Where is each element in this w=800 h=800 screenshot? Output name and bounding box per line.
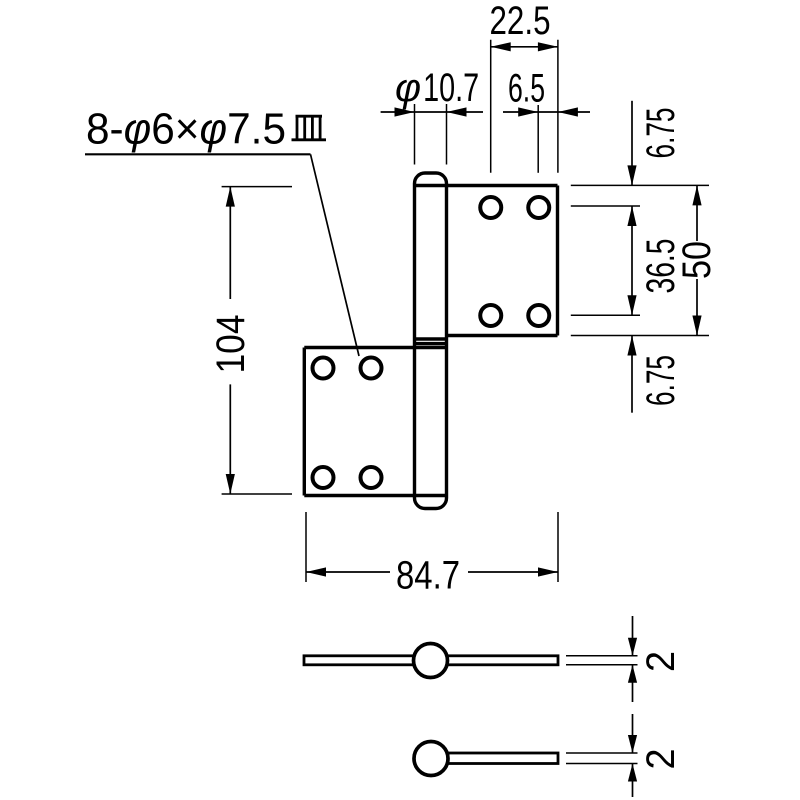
svg-text:104: 104 (209, 315, 253, 374)
dimension 36.5 text (639, 239, 683, 294)
dimension 104 line lower (226, 384, 235, 494)
dimension 6.75 bottom line (627, 336, 636, 413)
extension line plate bottom right (571, 335, 709, 337)
dimension 6.75 top text (639, 108, 683, 159)
svg-text:2: 2 (639, 749, 683, 770)
dimension phi10.7 line left tail (381, 107, 415, 116)
svg-text:6.75: 6.75 (639, 108, 683, 159)
countersunk symbol (sara) (292, 115, 327, 140)
svg-text:50: 50 (675, 241, 719, 279)
side view 2 pin circle (414, 742, 448, 776)
dimension 6.5 left tail (503, 107, 538, 116)
knuckle joint band upper (415, 337, 447, 340)
dimension 2 lower: above arrow (628, 714, 637, 753)
dimension phi10.7 line middle (415, 111, 447, 113)
extension line 84.7 right (557, 512, 559, 582)
extension line hole col right (537, 105, 539, 173)
top leaf right edge (556, 186, 559, 336)
pin top cap (415, 173, 447, 186)
extension line hole row2 (571, 314, 640, 316)
top leaf top edge (415, 184, 558, 187)
dimension 2 lower: below arrow (628, 764, 637, 798)
dimension 104 line upper (226, 187, 235, 299)
pin bottom cap (415, 496, 447, 509)
dimension 6.5 middle (538, 111, 558, 113)
screw hole 3 (480, 305, 501, 326)
pin right edge (445, 186, 448, 496)
dimension 50 line lower (692, 279, 701, 336)
side view 2 ext line top (566, 752, 638, 754)
dimension 50 text (675, 241, 719, 279)
dimension 2 upper: above arrow (628, 616, 637, 656)
side view 1 ext line top (566, 655, 638, 657)
dimension 104 text (209, 315, 253, 374)
dimension 84.7 line right (468, 567, 558, 576)
dimension 6.5 text (508, 67, 545, 111)
extension line 104 top (222, 186, 292, 188)
svg-text:8-φ6×φ7.5: 8-φ6×φ7.5 (86, 105, 286, 154)
dimension 6.5 right tail (558, 107, 590, 116)
extension line 84.7 left (305, 512, 307, 582)
screw hole 8 (361, 467, 382, 488)
dimension 22.5 text (490, 0, 551, 43)
dimension 2 upper text (639, 651, 683, 672)
dimension 6.75 bottom text (639, 355, 683, 406)
side view 2 ext line bottom (566, 763, 638, 765)
extension line hole col left (490, 40, 492, 173)
screw hole 2 (528, 197, 549, 218)
extension line pin left (414, 104, 416, 165)
screw hole 7 (313, 467, 334, 488)
screw hole 4 (528, 305, 549, 326)
dimension phi10.7 text (395, 66, 479, 110)
extension line pin right (446, 104, 448, 165)
side view 1 leaf bar (304, 656, 558, 665)
dimension 36.5 line (627, 206, 636, 315)
svg-text:6.5: 6.5 (508, 67, 545, 111)
pin left edge (413, 186, 416, 496)
screw hole 1 (480, 197, 501, 218)
dimension 6.75 top line (627, 101, 636, 186)
extension line plate right top (557, 40, 559, 173)
dimension 2 upper: below arrow (628, 665, 637, 702)
lower leaf top edge (304, 346, 446, 349)
label 8-phi6xphi7.5 countersunk (86, 105, 286, 154)
screw hole 5 (313, 358, 334, 379)
leader line to hole (311, 154, 360, 356)
top leaf bottom edge (447, 334, 558, 337)
knuckle joint band lower (415, 342, 447, 345)
label underline (85, 153, 311, 155)
dimension 50 line upper (692, 185, 701, 241)
dimension phi10.7 line right tail (447, 107, 484, 116)
side view 1 ext line bottom (566, 664, 638, 666)
extension line 104 bottom (222, 493, 292, 495)
lower leaf bottom edge (304, 494, 446, 497)
side view 2 leaf bar (448, 753, 558, 764)
svg-text:2: 2 (639, 651, 683, 672)
extension line plate top right (571, 184, 709, 186)
dimension 2 lower text (639, 749, 683, 770)
dimension 84.7 line left (306, 567, 390, 576)
svg-text:6.75: 6.75 (639, 355, 683, 406)
svg-text:22.5: 22.5 (490, 0, 551, 43)
svg-text:84.7: 84.7 (396, 554, 460, 598)
screw hole 6 (361, 358, 382, 379)
lower leaf left edge (303, 348, 306, 496)
dimension 84.7 text (396, 554, 460, 598)
svg-text:φ10.7: φ10.7 (395, 66, 479, 110)
side view 1 pin circle (414, 644, 448, 678)
extension line hole row1 (571, 205, 640, 207)
dimension 22.5 line (491, 42, 558, 51)
